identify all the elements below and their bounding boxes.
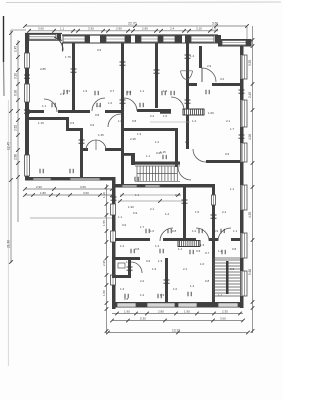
svg-text:1.0: 1.0 <box>200 262 205 266</box>
wall <box>112 302 243 308</box>
svg-text:0.8: 0.8 <box>232 247 237 251</box>
node A <box>105 273 109 277</box>
node A <box>126 91 128 95</box>
wall <box>62 34 218 36</box>
node A <box>105 229 109 233</box>
wall <box>175 35 182 43</box>
wire <box>118 200 183 202</box>
svg-text:2.90: 2.90 <box>36 185 42 189</box>
svg-text:1.5: 1.5 <box>195 210 200 214</box>
node A <box>221 250 223 254</box>
node A <box>241 319 245 323</box>
svg-text:1.55: 1.55 <box>102 220 106 226</box>
node A <box>23 24 27 28</box>
window W23 <box>145 185 160 187</box>
wire <box>30 217 112 219</box>
svg-text:1.3: 1.3 <box>120 287 125 291</box>
svg-text:1.75: 1.75 <box>65 55 71 59</box>
node A <box>9 260 13 264</box>
svg-text:0.9: 0.9 <box>230 267 235 271</box>
door D14 double swing <box>86 140 106 150</box>
node A <box>23 187 27 191</box>
wall <box>215 35 221 43</box>
node A <box>120 61 126 63</box>
node A <box>110 319 114 323</box>
node A <box>238 312 242 316</box>
svg-text:1.1: 1.1 <box>146 154 151 158</box>
svg-text:2.35: 2.35 <box>222 309 228 313</box>
svg-text:1.3: 1.3 <box>158 259 163 263</box>
radiator R1 <box>183 109 204 115</box>
wire <box>25 188 112 190</box>
node A <box>24 109 30 111</box>
svg-text:0.9: 0.9 <box>90 123 95 127</box>
node A <box>127 266 133 268</box>
wire <box>252 26 254 333</box>
wall <box>25 117 69 120</box>
window W27 <box>178 303 197 307</box>
door D6 <box>171 97 184 110</box>
door D1 <box>54 37 63 51</box>
wall <box>155 43 158 108</box>
svg-text:0.9: 0.9 <box>225 152 230 156</box>
window W20 <box>111 231 116 242</box>
window W7 <box>222 41 246 46</box>
node A <box>63 90 65 94</box>
svg-text:1.0: 1.0 <box>163 114 168 118</box>
wire <box>106 184 108 334</box>
wall <box>100 35 106 43</box>
window W8 <box>25 53 30 68</box>
wall <box>240 79 244 100</box>
svg-text:2.80: 2.80 <box>158 309 164 313</box>
svg-text:1.9: 1.9 <box>152 267 157 271</box>
wall <box>240 210 244 233</box>
wall <box>25 68 29 84</box>
wire <box>25 194 112 196</box>
wall <box>115 238 150 241</box>
node A <box>105 329 109 333</box>
svg-text:2.4: 2.4 <box>222 210 227 214</box>
stair upper <box>135 166 180 181</box>
stair lower <box>214 258 240 300</box>
wall <box>212 205 215 302</box>
wall <box>240 258 244 271</box>
node A <box>145 229 147 233</box>
svg-text:1.2: 1.2 <box>96 104 101 108</box>
node A <box>159 29 163 33</box>
wall <box>218 39 251 41</box>
door D3 <box>92 98 105 111</box>
svg-text:1.9: 1.9 <box>66 89 71 93</box>
node A <box>133 24 137 28</box>
wire <box>25 25 247 27</box>
svg-text:1.0: 1.0 <box>173 287 178 291</box>
wc <box>118 263 125 268</box>
node A <box>245 24 249 28</box>
svg-text:2.90: 2.90 <box>116 27 122 31</box>
node A <box>96 103 98 107</box>
node A <box>56 193 60 197</box>
wall <box>121 43 124 184</box>
node A <box>101 29 105 33</box>
svg-text:3.00: 3.00 <box>220 316 226 320</box>
wall <box>112 177 116 204</box>
node A <box>176 331 180 335</box>
wall <box>83 148 88 151</box>
svg-text:22.70: 22.70 <box>128 22 137 26</box>
svg-text:1.45: 1.45 <box>14 46 18 52</box>
svg-text:0.7: 0.7 <box>110 89 115 93</box>
window W3 <box>106 36 125 42</box>
window W25 <box>117 303 136 307</box>
svg-text:1.2: 1.2 <box>192 119 197 123</box>
door D10 <box>178 167 191 180</box>
svg-text:1.0: 1.0 <box>118 119 123 123</box>
svg-text:3.10: 3.10 <box>14 73 18 79</box>
node A <box>154 69 160 71</box>
node A <box>214 24 218 28</box>
node A <box>105 213 109 217</box>
node A <box>251 82 255 86</box>
wire <box>112 320 243 322</box>
node A <box>71 29 75 33</box>
svg-text:1.60: 1.60 <box>208 111 214 115</box>
svg-text:2.45: 2.45 <box>248 92 252 98</box>
svg-text:0.8: 0.8 <box>95 113 100 117</box>
door D2 <box>44 99 57 112</box>
svg-text:0.8: 0.8 <box>135 247 140 251</box>
node A <box>27 29 31 33</box>
svg-text:3.2: 3.2 <box>220 77 225 81</box>
wall <box>135 162 180 165</box>
node A <box>251 238 255 242</box>
svg-text:5.30: 5.30 <box>140 316 146 320</box>
wall <box>25 177 115 181</box>
door D15 <box>131 262 142 273</box>
node A <box>105 307 109 311</box>
node A <box>16 68 20 72</box>
wire <box>6 1 281 4</box>
door D12 <box>196 228 209 241</box>
svg-text:2.1: 2.1 <box>226 119 231 123</box>
svg-text:1.10: 1.10 <box>102 192 106 198</box>
window W10 <box>25 155 30 176</box>
wall <box>25 33 29 53</box>
wall <box>240 127 244 143</box>
svg-text:1.15: 1.15 <box>38 121 44 125</box>
wall <box>185 35 191 43</box>
svg-text:0.90: 0.90 <box>14 90 18 96</box>
node A <box>31 193 35 197</box>
node A <box>24 74 30 76</box>
node A <box>23 193 27 197</box>
svg-text:1.2: 1.2 <box>140 293 145 297</box>
svg-text:2.1: 2.1 <box>183 267 188 271</box>
wall <box>125 35 131 43</box>
node A <box>187 292 189 296</box>
svg-text:3.05: 3.05 <box>38 27 44 31</box>
node A <box>68 193 72 197</box>
wall <box>25 102 29 155</box>
window W24 <box>212 195 216 205</box>
svg-text:2.95: 2.95 <box>142 27 148 31</box>
window W6 <box>191 36 214 42</box>
node A <box>182 29 186 33</box>
svg-text:1.2: 1.2 <box>120 244 125 248</box>
window W9 <box>25 84 30 102</box>
wall <box>112 257 140 260</box>
node A <box>164 279 170 281</box>
window W4 <box>141 36 158 42</box>
node A <box>189 250 191 254</box>
svg-text:0.9: 0.9 <box>160 293 165 297</box>
node A <box>214 29 218 33</box>
node A <box>105 240 109 244</box>
svg-text:1.7: 1.7 <box>230 127 235 131</box>
window W5 <box>163 36 175 42</box>
svg-text:0.9: 0.9 <box>214 229 219 233</box>
svg-text:1.1: 1.1 <box>233 229 238 233</box>
svg-text:0.8: 0.8 <box>124 297 129 301</box>
svg-text:1.1: 1.1 <box>118 215 123 219</box>
node A <box>120 99 126 101</box>
svg-text:1.95: 1.95 <box>184 309 190 313</box>
wall <box>112 242 116 275</box>
node A <box>161 91 163 95</box>
node A <box>52 29 56 33</box>
wall <box>246 39 252 46</box>
svg-text:2.9: 2.9 <box>207 64 212 68</box>
svg-text:12.45: 12.45 <box>7 142 11 150</box>
node A <box>16 41 20 45</box>
node A <box>105 256 109 260</box>
wire <box>10 30 12 263</box>
node A <box>110 187 114 191</box>
node A <box>69 169 71 173</box>
svg-text:1.2: 1.2 <box>108 101 113 105</box>
wall <box>112 215 116 231</box>
wall <box>85 35 90 43</box>
svg-text:1.1: 1.1 <box>218 293 223 297</box>
svg-text:1.1: 1.1 <box>178 247 183 251</box>
node A <box>105 301 109 305</box>
wall <box>112 285 116 309</box>
svg-text:0.9: 0.9 <box>196 249 201 253</box>
svg-text:3.55: 3.55 <box>248 60 252 66</box>
svg-text:2.4: 2.4 <box>170 27 175 31</box>
node A <box>105 202 109 206</box>
node A <box>16 82 20 86</box>
node A <box>49 193 53 197</box>
svg-text:0.8: 0.8 <box>205 279 210 283</box>
svg-text:1.9: 1.9 <box>83 89 88 93</box>
node A <box>208 29 212 33</box>
door D5 <box>124 98 137 111</box>
svg-text:0.9: 0.9 <box>133 211 138 215</box>
svg-text:1.1: 1.1 <box>60 27 65 31</box>
wall <box>128 258 131 278</box>
node A <box>130 249 132 253</box>
node A <box>98 193 102 197</box>
svg-text:0.9: 0.9 <box>70 121 75 125</box>
window W12 <box>242 100 247 127</box>
svg-text:2.62: 2.62 <box>14 125 18 131</box>
svg-text:4.35: 4.35 <box>248 212 252 218</box>
node A <box>251 300 255 304</box>
node A <box>205 90 207 94</box>
wire <box>17 40 19 222</box>
wire <box>120 194 180 196</box>
svg-text:2.2: 2.2 <box>140 279 145 283</box>
wall <box>175 128 178 167</box>
wall <box>186 83 197 86</box>
node A <box>167 229 169 233</box>
node A <box>185 99 191 101</box>
node A <box>9 109 13 113</box>
svg-text:1.3: 1.3 <box>200 243 205 247</box>
radiator R2 <box>178 241 200 247</box>
node A <box>170 91 172 95</box>
wall <box>240 46 244 55</box>
svg-text:0.8: 0.8 <box>172 229 177 233</box>
svg-text:2.45: 2.45 <box>130 137 136 141</box>
node A <box>120 193 124 197</box>
node A <box>157 294 159 298</box>
svg-text:1.2: 1.2 <box>218 249 223 253</box>
svg-text:2.0: 2.0 <box>52 117 57 121</box>
node A <box>145 312 149 316</box>
node A <box>220 229 222 233</box>
node A <box>16 133 20 137</box>
svg-text:1.35: 1.35 <box>98 133 104 137</box>
svg-text:1.80: 1.80 <box>102 290 106 296</box>
node A <box>251 306 255 310</box>
node A <box>124 294 126 298</box>
svg-text:2.0: 2.0 <box>185 140 190 144</box>
node A <box>9 178 13 182</box>
node A <box>211 319 215 323</box>
wall <box>29 110 44 113</box>
wall <box>240 296 244 308</box>
wall <box>80 128 83 179</box>
window W2 <box>63 36 85 42</box>
svg-text:5.60: 5.60 <box>248 269 252 275</box>
node A <box>126 29 130 33</box>
node A <box>39 169 41 173</box>
svg-text:1.2: 1.2 <box>155 140 160 144</box>
node A <box>134 177 136 181</box>
svg-text:1.90: 1.90 <box>124 309 130 313</box>
svg-text:0.95: 0.95 <box>156 151 162 155</box>
window W22 <box>122 185 137 187</box>
svg-text:1.7: 1.7 <box>140 225 145 229</box>
svg-text:1.1: 1.1 <box>42 104 47 108</box>
wall <box>199 46 202 68</box>
wall <box>25 33 62 35</box>
svg-text:3.05: 3.05 <box>80 185 86 189</box>
node A <box>211 214 217 216</box>
svg-text:0.7: 0.7 <box>205 251 210 255</box>
wall <box>135 35 141 43</box>
svg-text:1.2: 1.2 <box>165 212 170 216</box>
node A <box>139 103 141 107</box>
node A <box>105 185 109 189</box>
svg-text:1.4: 1.4 <box>190 284 195 288</box>
node A <box>16 175 20 179</box>
node A <box>106 331 110 335</box>
node A <box>76 29 80 33</box>
svg-text:3.00: 3.00 <box>83 191 89 195</box>
wall <box>115 184 215 188</box>
wall <box>240 162 244 185</box>
sink <box>181 71 193 80</box>
node A <box>159 249 161 253</box>
node A <box>111 196 117 198</box>
window W11 <box>242 55 247 79</box>
node A <box>105 283 109 287</box>
wire <box>7 100 9 366</box>
door D7 <box>201 68 203 82</box>
node A <box>251 38 255 42</box>
node A <box>115 312 119 316</box>
svg-text:1.80: 1.80 <box>40 191 46 195</box>
wall <box>112 275 131 278</box>
node A <box>251 108 255 112</box>
node A <box>251 161 255 165</box>
wire <box>112 313 243 315</box>
window W17 <box>33 178 51 180</box>
svg-text:4.90: 4.90 <box>248 134 252 140</box>
node A <box>16 109 20 113</box>
svg-text:2.80: 2.80 <box>14 154 18 160</box>
node A <box>52 187 56 191</box>
node A <box>16 161 20 165</box>
node A <box>251 44 255 48</box>
svg-text:1.30: 1.30 <box>128 205 134 209</box>
wall <box>66 128 83 131</box>
node A <box>198 229 200 233</box>
node A <box>16 98 20 102</box>
window W21 <box>111 275 116 285</box>
node A <box>251 329 255 333</box>
node A <box>246 331 250 335</box>
window W28 <box>218 303 238 307</box>
svg-text:3.30: 3.30 <box>88 27 94 31</box>
node A <box>239 134 245 136</box>
wall <box>218 39 222 46</box>
node A <box>9 31 13 35</box>
wall <box>212 187 215 195</box>
wall <box>183 187 186 239</box>
node A <box>110 193 114 197</box>
window W18 <box>70 178 100 180</box>
wall <box>25 176 29 180</box>
node A <box>154 29 158 33</box>
node A <box>71 68 77 70</box>
svg-text:0.9: 0.9 <box>97 48 102 52</box>
node A <box>251 185 255 189</box>
svg-text:1.1: 1.1 <box>140 89 145 93</box>
node A <box>16 148 20 152</box>
wall <box>206 160 240 163</box>
node A <box>126 319 130 323</box>
svg-text:2.85: 2.85 <box>40 67 46 71</box>
node A <box>131 29 135 33</box>
node A <box>134 312 138 316</box>
wall <box>212 83 241 86</box>
wall <box>165 258 168 305</box>
